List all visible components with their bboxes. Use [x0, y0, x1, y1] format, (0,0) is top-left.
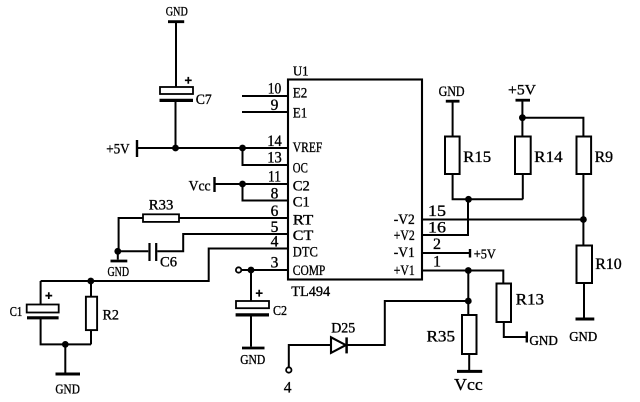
- svg-text:15: 15: [428, 203, 446, 220]
- svg-text:R35: R35: [427, 328, 456, 345]
- svg-text:GND: GND: [529, 334, 558, 349]
- svg-text:DTC: DTC: [293, 245, 318, 261]
- svg-text:C2: C2: [293, 178, 310, 194]
- svg-text:4: 4: [284, 379, 292, 396]
- svg-text:GND: GND: [166, 3, 188, 18]
- svg-text:E2: E2: [293, 86, 308, 102]
- svg-text:13: 13: [267, 149, 282, 166]
- svg-text:R10: R10: [595, 256, 622, 273]
- svg-text:C2: C2: [273, 303, 287, 318]
- svg-text:CT: CT: [293, 228, 314, 244]
- svg-text:E1: E1: [293, 106, 308, 122]
- svg-text:2: 2: [433, 236, 441, 253]
- svg-text:R33: R33: [149, 198, 174, 214]
- svg-text:Vcc: Vcc: [454, 375, 483, 394]
- svg-text:C6: C6: [160, 255, 177, 271]
- svg-text:C1: C1: [10, 304, 22, 319]
- svg-text:C1: C1: [293, 194, 310, 210]
- svg-text:+5V: +5V: [106, 141, 130, 157]
- svg-text:R14: R14: [534, 149, 563, 166]
- svg-text:+V1: +V1: [394, 263, 415, 279]
- svg-text:D25: D25: [331, 320, 355, 336]
- svg-text:-V2: -V2: [394, 212, 415, 228]
- svg-text:GND: GND: [569, 330, 597, 345]
- svg-text:OC: OC: [293, 160, 308, 176]
- svg-text:R2: R2: [103, 307, 120, 323]
- svg-text:U1: U1: [293, 65, 309, 80]
- svg-text:R13: R13: [516, 291, 545, 308]
- svg-text:COMP: COMP: [293, 263, 326, 279]
- svg-text:TL494: TL494: [291, 284, 330, 300]
- svg-text:R9: R9: [595, 149, 614, 166]
- svg-text:VREF: VREF: [293, 140, 323, 156]
- svg-text:GND: GND: [55, 382, 80, 397]
- svg-text:RT: RT: [293, 213, 314, 229]
- svg-text:1: 1: [433, 253, 441, 270]
- svg-text:+5V: +5V: [474, 246, 496, 261]
- svg-text:Vcc: Vcc: [189, 179, 211, 195]
- svg-text:16: 16: [428, 219, 446, 236]
- svg-text:-V1: -V1: [394, 245, 415, 261]
- svg-text:GND: GND: [240, 352, 265, 367]
- svg-text:C7: C7: [196, 92, 212, 108]
- svg-text:R15: R15: [463, 149, 491, 166]
- svg-text:+V2: +V2: [394, 228, 415, 244]
- svg-text:GND: GND: [439, 84, 465, 100]
- svg-text:+5V: +5V: [508, 83, 536, 99]
- svg-text:GND: GND: [108, 264, 130, 279]
